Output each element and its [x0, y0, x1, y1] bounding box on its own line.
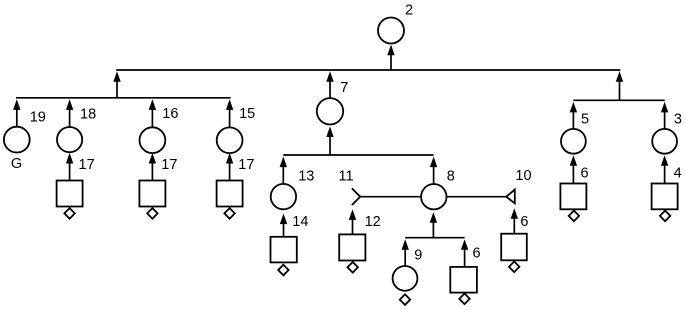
arrow from circle 15 up to left branch line [226, 99, 233, 127]
diamond below square 6 under triangle 10 [509, 262, 519, 273]
arrow 14 from square up to circle 13 [280, 214, 287, 237]
circle 9 (person 9) [393, 266, 418, 291]
circle 8 (person 8) [421, 184, 446, 209]
svg-text:4: 4 [674, 165, 682, 181]
diamond below square at x=229.6 [224, 208, 234, 219]
open triangle 10 (person 10) [506, 190, 515, 204]
arrow from circle 18 up to left branch line [66, 99, 73, 126]
diamond below square at x=69.6 [64, 208, 74, 219]
junction arrow left branch to main line [113, 71, 120, 98]
circle 15 (person 15) [217, 127, 243, 153]
square 6 (person 6) lower [450, 267, 477, 293]
diamond below square at x=152.4 [147, 208, 157, 219]
svg-text:G: G [11, 156, 22, 172]
couple line from 11 to circle 8 [360, 196, 421, 198]
svg-text:6: 6 [520, 214, 528, 230]
square under circle at x=229.6 [217, 181, 243, 207]
main horizontal line (top generation bar) [116, 69, 620, 71]
svg-text:16: 16 [162, 106, 178, 122]
couple line from circle 8 to triangle 10 [447, 196, 507, 198]
square 4 right branch [652, 184, 678, 210]
lower center horizontal line [405, 237, 464, 239]
arrow from lower line up to circle 8 [430, 212, 437, 238]
svg-text:18: 18 [80, 107, 96, 123]
arrow from center line up to circle 7 [326, 126, 333, 155]
arrow from circle 8 up to center line [430, 157, 437, 185]
diamond below circle 9 [400, 294, 410, 305]
svg-text:17: 17 [79, 157, 95, 173]
svg-text:10: 10 [515, 168, 531, 184]
svg-text:12: 12 [365, 214, 381, 230]
svg-text:6: 6 [581, 165, 589, 181]
circle 19 (person 19) [4, 127, 30, 153]
circle 13 (person 13) [271, 184, 296, 209]
arrow from circle 19 up to left branch line [13, 99, 20, 126]
square 14 (person 14) [271, 237, 297, 263]
circle 2 (person 2) [378, 18, 404, 44]
svg-text:19: 19 [30, 110, 46, 126]
arrow 17 from square up to circle at x=69.6 [66, 153, 73, 181]
circle 5 (person 5) [561, 129, 586, 154]
svg-text:5: 5 [581, 112, 589, 128]
square 6 right branch [560, 184, 586, 210]
circle 3 (person 3) [652, 129, 677, 154]
square 6 under triangle 10 [501, 234, 527, 261]
svg-text:13: 13 [298, 169, 314, 185]
arrow 17 from square up to circle at x=152.4 [149, 153, 156, 181]
svg-text:8: 8 [447, 168, 455, 184]
svg-text:6: 6 [473, 246, 481, 262]
arrow 4 from square up to circle above [661, 155, 668, 183]
svg-text:15: 15 [239, 106, 255, 122]
arrow from circle 5 up to right branch line [570, 102, 577, 129]
arrow 6 from square up to circle above [570, 155, 577, 183]
svg-text:11: 11 [339, 168, 354, 184]
arrow 17 from square up to circle at x=229.6 [226, 153, 233, 181]
junction arrow right branch to main line [616, 71, 623, 100]
diamond below square 4 right branch [660, 211, 670, 222]
svg-text:17: 17 [161, 157, 177, 173]
center horizontal line [283, 154, 433, 156]
arrow from circle 3 up to right branch line [661, 102, 668, 129]
diamond below square 14 [278, 265, 288, 276]
arrow from circle 16 up to left branch line [149, 99, 156, 127]
svg-text:2: 2 [405, 3, 413, 19]
left branch horizontal line [16, 97, 231, 99]
arrow from main line up to circle 2 [387, 45, 394, 70]
square 12 (person 12) [339, 234, 365, 260]
arrow 12 from square up to open arrowhead 11 [349, 209, 356, 234]
open arrowhead 11 (person 11) [352, 188, 360, 205]
right branch horizontal line [573, 99, 664, 101]
svg-text:14: 14 [292, 214, 308, 230]
svg-text:9: 9 [414, 248, 422, 264]
svg-text:7: 7 [340, 80, 348, 96]
diamond below square 12 [348, 262, 358, 273]
arrow 6 from square up to triangle 10 [511, 208, 518, 234]
square under circle at x=152.4 [139, 181, 165, 207]
circle 16 (person 16) [140, 127, 166, 153]
diamond below square 6 lower [459, 294, 469, 305]
svg-text:3: 3 [674, 112, 682, 128]
circle 18 (person 18) [57, 127, 82, 152]
square under circle at x=69.6 [57, 181, 83, 207]
svg-text:17: 17 [238, 157, 254, 173]
circle 7 (person 7) [317, 98, 343, 124]
arrow from circle 13 up to center line [280, 157, 287, 184]
diamond below square 6 right branch [569, 211, 579, 222]
junction arrow center branch to main line [326, 71, 333, 97]
arrow from square 6 up to lower line [461, 239, 468, 267]
arrow from circle 9 up to lower line [402, 239, 409, 266]
